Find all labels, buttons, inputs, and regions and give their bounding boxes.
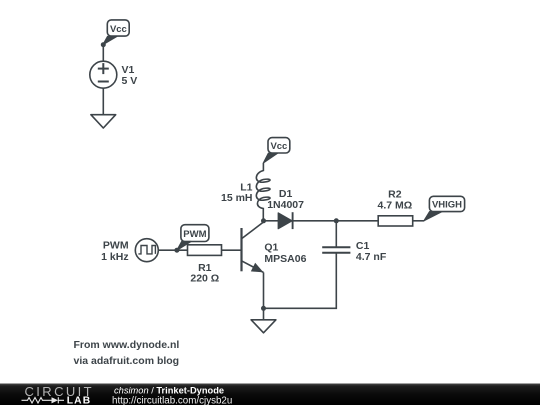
svg-text:PWM: PWM [103, 240, 129, 252]
svg-text:Vcc: Vcc [270, 141, 287, 152]
node dot at PWM flag [174, 248, 179, 253]
inductor L1 [256, 163, 270, 221]
svg-text:1 kHz: 1 kHz [101, 251, 128, 263]
svg-text:Vcc: Vcc [110, 24, 127, 35]
net flag VHIGH [424, 196, 465, 220]
svg-text:4.7 MΩ: 4.7 MΩ [378, 199, 413, 211]
Q1 labels [264, 241, 306, 265]
svg-text:C1: C1 [356, 240, 370, 252]
svg-text:PWM: PWM [183, 229, 206, 240]
PWM source name/value labels [101, 240, 129, 263]
wire collector to node [263, 221, 265, 222]
wire node to R2 [336, 220, 378, 222]
wire to ground 2 [263, 308, 265, 320]
CircuitLab logo zigzag + diode [22, 397, 65, 403]
diode D1 [278, 212, 292, 229]
wire R1 to Q1 base [222, 249, 242, 251]
footer bar [0, 384, 540, 405]
C1 labels [356, 240, 387, 263]
wire PWM to R1 [158, 249, 187, 251]
wire V1 bottom [102, 88, 104, 115]
svg-text:220 Ω: 220 Ω [190, 272, 219, 284]
wire V1 top [102, 45, 104, 62]
wire node to D1 [264, 220, 279, 222]
R2 labels [378, 189, 413, 212]
transistor Q1 (NPN) [242, 222, 264, 272]
L1 labels [221, 181, 253, 203]
svg-text:5 V: 5 V [122, 75, 138, 87]
square-wave source PWM [135, 239, 158, 262]
resistor R1 [188, 245, 222, 256]
svg-text:15 mH: 15 mH [221, 192, 253, 204]
wire C1 bottom [264, 253, 337, 309]
svg-text:chsimon / Trinket-Dynode: chsimon / Trinket-Dynode [114, 385, 224, 395]
net flag PWM [177, 225, 209, 251]
svg-text:Q1: Q1 [264, 241, 278, 253]
svg-text:From www.dynode.nl: From www.dynode.nl [74, 339, 180, 351]
svg-text:MPSA06: MPSA06 [264, 253, 306, 265]
wire R2 to VHIGH [413, 220, 425, 222]
node dot at Vcc/V1 [101, 42, 106, 47]
net flag Vcc (at L1) [263, 138, 289, 163]
svg-text:LAB: LAB [67, 396, 91, 405]
ground (emitter) [251, 320, 276, 333]
svg-text:4.7 nF: 4.7 nF [356, 251, 387, 263]
net flag Vcc (at V1) [103, 20, 129, 45]
svg-text:via adafruit.com blog: via adafruit.com blog [74, 355, 180, 367]
svg-text:1N4007: 1N4007 [267, 199, 304, 211]
node dot D1/R2/C1 [334, 218, 339, 223]
capacitor C1 [322, 247, 350, 252]
wire D1 to output node [292, 220, 336, 222]
R1 labels [190, 262, 219, 284]
node dot emitter/ground [261, 306, 266, 311]
svg-text:http://circuitlab.com/cjysb2u: http://circuitlab.com/cjysb2u [112, 395, 232, 405]
ground (V1) [91, 115, 116, 128]
svg-text:V1: V1 [122, 64, 135, 76]
V1 value labels [122, 64, 138, 87]
voltage source V1 [90, 61, 117, 88]
svg-text:VHIGH: VHIGH [432, 199, 462, 210]
wire node to C1 [335, 221, 337, 248]
wire emitter down [263, 272, 265, 308]
D1 labels [267, 188, 304, 211]
resistor R2 [378, 216, 413, 226]
node dot collector/L1/D1 [261, 218, 266, 223]
